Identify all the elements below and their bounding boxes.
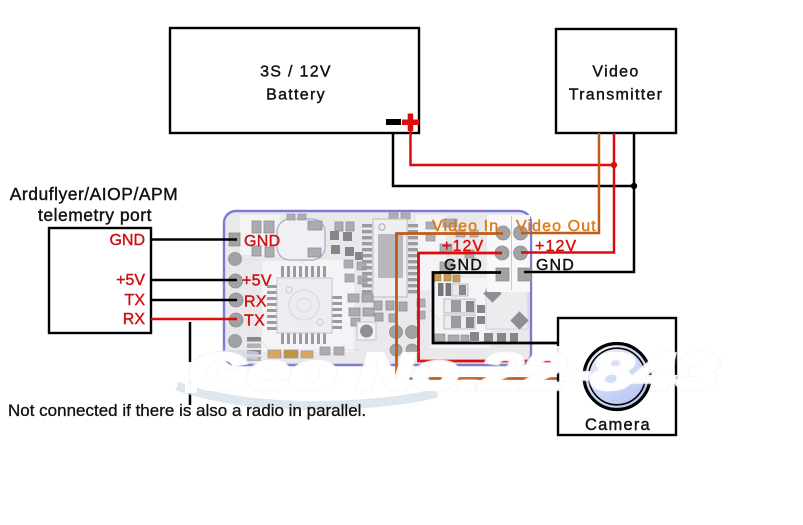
OSD board U1 (PCB photo) [224, 211, 531, 365]
svg-text:telemetry port: telemetry port [38, 205, 152, 225]
junction GND net [631, 183, 637, 189]
battery plus terminal [402, 114, 419, 132]
bottom caps row [470, 332, 518, 342]
svg-text:+12V: +12V [442, 238, 484, 255]
inductor L1 [357, 322, 376, 340]
svg-text:Arduflyer/AIOP/APM: Arduflyer/AIOP/APM [10, 184, 179, 204]
wire VTx +12V (red) [521, 133, 614, 253]
wire battery minus to VTx ground net (black) [393, 133, 634, 186]
wire battery plus to +12V net (red) [411, 131, 615, 165]
svg-text:+5V: +5V [116, 272, 145, 289]
svg-text:RX: RX [123, 311, 146, 328]
svg-text:Not connected if there is also: Not connected if there is also a radio i… [8, 401, 366, 420]
right-bottom analog section [434, 274, 529, 343]
svg-text:TX: TX [244, 313, 265, 330]
telemetry port box [10, 184, 179, 333]
header pads video in column [495, 226, 510, 281]
wire TX telemetry to board RX (black) [151, 299, 237, 302]
svg-text:GND: GND [444, 257, 483, 274]
MCU U2 QFP [267, 266, 342, 344]
svg-text:GND: GND [244, 233, 280, 250]
crystal X1 [277, 219, 325, 260]
tan resistors bottom row [268, 347, 344, 358]
svg-text:Battery: Battery [266, 87, 326, 104]
battery B1 [170, 28, 419, 133]
header pads video out column [514, 226, 532, 281]
video transmitter box [556, 29, 676, 133]
svg-text:TX: TX [125, 292, 146, 309]
transistor Q2 [444, 315, 475, 329]
extra small passives [287, 213, 478, 319]
dark component squares [330, 231, 363, 260]
svg-text:+12V: +12V [535, 238, 577, 255]
wire VTx/battery GND to board (black) [524, 133, 634, 272]
svg-text:Video Out: Video Out [516, 218, 597, 235]
svg-text:3S / 12V: 3S / 12V [260, 64, 332, 81]
svg-text:Video: Video [592, 64, 639, 81]
wire board GND to camera (black) [433, 273, 557, 344]
pad square [486, 288, 528, 329]
junction +12V net [611, 162, 617, 168]
faint traces [240, 240, 440, 350]
wire RX telemetry to board TX (red) [151, 318, 237, 321]
wire VTx video to board Video Out (orange) [521, 133, 599, 233]
battery minus terminal [386, 119, 401, 125]
wire board Video In to camera (orange) [397, 234, 558, 379]
silkscreen light patches [240, 215, 490, 352]
svg-text:Geo No.22-843: Geo No.22-843 [188, 343, 718, 400]
svg-text:+5V: +5V [242, 273, 272, 290]
transistor Q1 [444, 299, 475, 313]
camera lens [584, 344, 650, 410]
top caps row [252, 221, 354, 257]
bottom octagon pads [390, 326, 419, 357]
wire +5V telemetry to board (black) [151, 279, 237, 282]
right connector strip [440, 215, 530, 292]
resistor array left [247, 337, 261, 361]
svg-text:Transmitter: Transmitter [569, 87, 664, 104]
left pad column [229, 233, 244, 348]
wire GND telemetry to board (black) [151, 238, 237, 241]
diode D2 diamond [510, 311, 528, 329]
diode D1 diamond [483, 284, 501, 302]
svg-text:Video In: Video In [432, 218, 499, 235]
passives below video chip [348, 294, 407, 326]
note pointer line [189, 322, 192, 405]
svg-text:Camera: Camera [585, 416, 651, 434]
svg-text:GND: GND [536, 257, 575, 274]
watermark [177, 343, 718, 406]
svg-text:RX: RX [244, 294, 267, 311]
wire board +12V to camera (red) [419, 253, 558, 361]
camera box [558, 318, 676, 435]
video chip U3 [362, 219, 418, 297]
svg-text:GND: GND [109, 232, 145, 249]
